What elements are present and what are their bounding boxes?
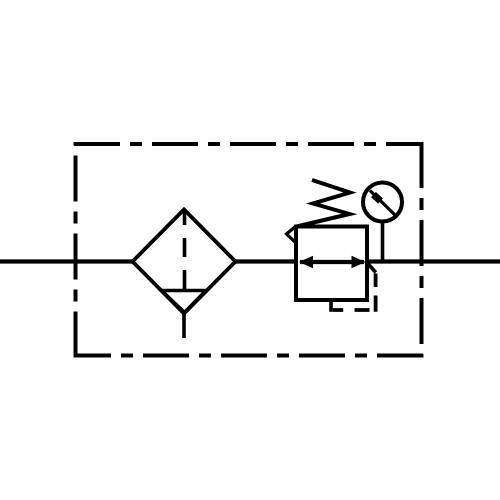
filter drain line [182,313,186,338]
wire: main inlet line (left) [0,259,133,263]
filter F1 diamond body [133,210,236,314]
enclosure dash-dot box top edge [74,142,423,146]
wire: flow path inside regulator [300,260,364,264]
pilot line dashed horizontal segment [333,308,370,312]
filter element dashed center line [183,211,187,290]
pressure gauge G1 stem [381,222,385,261]
pilot line solid step from regulator bottom [329,298,333,312]
filter water separator triangle [162,291,207,313]
spring adjustment arrowhead [287,226,297,243]
arrowhead left (flow path) [299,256,313,268]
wire: line between filter and regulator [235,259,297,263]
wire: main outlet line (right) [366,259,500,263]
enclosure dash-dot box right edge [420,142,424,358]
regulator spring [297,180,351,227]
enclosure dash-dot box left edge [74,142,78,358]
pilot line dashed vertical segment [374,274,378,312]
pressure gauge needle [370,191,396,217]
pilot line diagonal tap to outlet [367,263,376,273]
pressure gauge G1 dial circle [363,183,402,222]
arrowhead right (flow path) [352,256,366,268]
pressure gauge needle hub [374,195,381,202]
enclosure dash-dot box bottom edge [74,354,423,358]
regulator R1 body box [296,227,367,301]
